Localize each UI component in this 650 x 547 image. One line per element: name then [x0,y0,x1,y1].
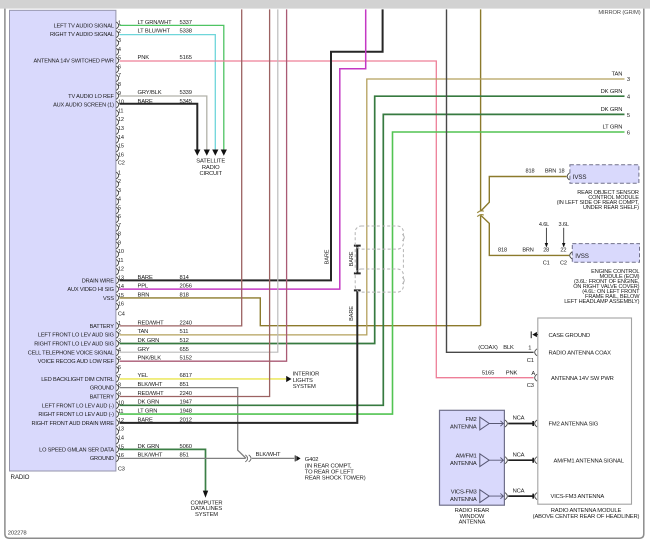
labels (COAX) BLK 1 C1 [478,345,534,364]
svg-text:RIGHT TV AUDIO SIGNAL: RIGHT TV AUDIO SIGNAL [50,32,114,38]
svg-text:ANTENNA 14V SWITCHED PWR: ANTENNA 14V SWITCHED PWR [33,59,113,65]
edge label TAN pin 3 [612,72,630,83]
svg-text:14: 14 [118,436,124,442]
wire BARE 2012 shield drain [120,290,361,423]
svg-text:6: 6 [627,130,630,136]
svg-text:RIGHT FRONT LO LEV AUD (-): RIGHT FRONT LO LEV AUD (-) [38,412,114,418]
terminal arc pnk at module [535,374,537,381]
svg-text:UNDER REAR SHELF): UNDER REAR SHELF) [583,205,639,211]
svg-text:VOICE RECOG AUD LOW REF: VOICE RECOG AUD LOW REF [38,359,115,365]
svg-text:TAN: TAN [612,72,623,78]
wire BARE 5345 (drain) [120,104,198,150]
svg-text:4.6L: 4.6L [539,222,549,228]
svg-text:IVSS: IVSS [573,174,587,181]
satellite radio circuit label [196,159,225,178]
svg-text:851: 851 [180,453,189,459]
svg-text:AUX VIDEO HI SIG: AUX VIDEO HI SIG [67,287,113,293]
caption G402 [305,457,366,481]
wire BRN 818 branch to ECM [481,216,569,256]
svg-text:NCA: NCA [513,416,525,422]
svg-text:6: 6 [118,214,121,220]
svg-text:RADIO ANTENNA COAX: RADIO ANTENNA COAX [549,351,612,357]
edge label DK GRN pin 4 [601,89,631,101]
svg-text:AM/FM1: AM/FM1 [456,454,477,460]
svg-text:5338: 5338 [180,29,192,35]
module IVSS rear object sensor box [567,165,639,183]
edge label DK GRN pin 5 [601,107,630,119]
svg-text:LEFT FRONT LO LEV AUD (-): LEFT FRONT LO LEV AUD (-) [42,403,114,409]
radio pin function labels [28,23,115,462]
labels 818 BRN 18 on branch 1 [526,169,565,175]
svg-text:BLK: BLK [503,345,514,351]
svg-text:C1: C1 [527,358,534,364]
svg-text:11: 11 [118,258,124,264]
wire NCA FM2 [508,416,537,427]
svg-text:C4: C4 [118,312,125,318]
svg-text:RIGHT FRONT LO LEV AUD SIG: RIGHT FRONT LO LEV AUD SIG [34,342,114,348]
svg-text:CIRCUIT: CIRCUIT [199,171,222,177]
svg-text:13: 13 [118,126,124,132]
svg-text:LEFT HEADLAMP ASSEMBLY): LEFT HEADLAMP ASSEMBLY) [564,299,639,305]
svg-text:AM/FM1 ANTENNA SIGNAL: AM/FM1 ANTENNA SIGNAL [554,459,625,465]
svg-text:LED BACKLIGHT DIM CNTRL: LED BACKLIGHT DIM CNTRL [41,377,114,383]
ground G402 arrow [295,455,300,461]
wire LT BLU/WHT 5338 [120,35,216,150]
arrow to interior lights system [286,376,291,382]
svg-text:5165: 5165 [482,370,494,376]
svg-text:5165: 5165 [180,55,192,61]
svg-text:7: 7 [118,223,121,229]
caption interior lights system [293,372,320,391]
svg-text:DRAIN WIRE: DRAIN WIRE [82,278,114,284]
svg-text:4: 4 [627,95,631,101]
wire LT GRN 1948 [120,132,625,414]
svg-text:3: 3 [118,38,121,44]
svg-text:TV AUDIO LO REF: TV AUDIO LO REF [68,94,114,100]
shield connector dashed box lower [355,269,404,292]
wire (COAX) BLK [447,9,534,352]
wire GRY 655 [120,9,278,352]
svg-text:BLK/WHT: BLK/WHT [138,453,163,459]
wire PNK 5165 [120,61,534,378]
wire RED/WHT 2240 pin1 [120,9,242,326]
svg-text:ANTENNA: ANTENNA [459,520,486,526]
splice split symbol on BRN 818 [477,211,484,217]
svg-text:13: 13 [118,427,124,433]
case ground symbol [531,331,538,338]
module radio rear window antenna box [440,410,505,505]
svg-text:5: 5 [627,113,630,119]
svg-text:LEFT FRONT LO LEV AUD SIG: LEFT FRONT LO LEV AUD SIG [38,333,114,339]
wire LT GRN/WHT 5337 [120,25,224,149]
wire TAN 511 [120,79,625,335]
module IVSS engine control box [570,244,640,263]
svg-text:SATELLITE: SATELLITE [196,159,225,165]
svg-text:C2: C2 [560,261,567,267]
satellite radio circuit arrows [194,150,227,156]
svg-text:1: 1 [118,171,121,177]
svg-text:LT GRN: LT GRN [602,125,622,131]
svg-text:C3: C3 [118,467,125,473]
svg-text:GROUND: GROUND [90,456,114,462]
wire BLK/WHT 851 pin8 [120,388,247,459]
svg-text:8: 8 [118,232,121,238]
shield bar BARE upper [354,246,361,274]
module radio antenna module box [538,318,632,504]
svg-text:ANTENNA: ANTENNA [450,424,477,430]
svg-text:CELL TELEPHONE VOICE SIGNAL: CELL TELEPHONE VOICE SIGNAL [28,350,114,356]
radio connector pin numbers C2/C4/C3 [118,20,125,472]
shield connector dashed box upper [355,226,404,249]
wire DK GRN 512 [120,96,625,343]
svg-text:REAR SHOCK TOWER): REAR SHOCK TOWER) [305,476,366,482]
antenna element FM2 [450,417,507,431]
svg-text:5339: 5339 [180,90,192,96]
svg-text:SYSTEM: SYSTEM [293,384,316,390]
svg-text:3.6L: 3.6L [559,222,569,228]
wire PPL 2056 (aux video to mirror) [120,9,366,289]
svg-text:DK GRN: DK GRN [601,107,623,113]
svg-text:FM2: FM2 [465,417,476,423]
svg-text:5: 5 [118,206,121,212]
svg-text:VICS-FM3: VICS-FM3 [451,490,477,496]
svg-text:(COAX): (COAX) [478,345,498,351]
svg-text:NCA: NCA [513,452,525,458]
labels 5165 PNK A C3 [482,370,535,389]
svg-text:AUX AUDIO SCREEN (1): AUX AUDIO SCREEN (1) [53,103,114,109]
svg-text:ANTENNA: ANTENNA [450,461,477,467]
svg-text:28: 28 [543,248,549,254]
svg-text:C3: C3 [527,383,534,389]
svg-text:CASE GROUND: CASE GROUND [549,333,591,339]
labels 818 BRN 28 22 on branch 2 [498,248,567,267]
svg-text:IVSS: IVSS [575,253,589,260]
svg-text:BATTERY: BATTERY [90,324,115,330]
svg-text:ANTENNA 14V SW PWR: ANTENNA 14V SW PWR [551,376,614,382]
radio connector pin terminals [116,22,118,462]
svg-text:16: 16 [118,302,124,308]
svg-text:6: 6 [118,64,121,70]
svg-text:202278: 202278 [8,530,28,536]
wire BARE 814 (drain to mirror) [120,9,383,280]
svg-text:9: 9 [118,240,121,246]
svg-text:BLK/WHT: BLK/WHT [256,452,281,458]
3.6L engine arrow [559,222,569,248]
svg-text:6: 6 [118,365,121,371]
wire PNK/BLK 5152 [120,9,287,361]
edge label LT GRN pin 6 [602,125,630,137]
wire YEL 6817 [120,378,287,380]
caption radio antenna module [533,508,640,520]
svg-text:7: 7 [118,73,121,79]
svg-text:VICS-FM3 ANTENNA: VICS-FM3 ANTENNA [551,494,605,500]
caption computer data lines system [191,500,223,517]
shield dashed connectors between boxes [355,249,403,269]
svg-text:SYSTEM: SYSTEM [195,512,218,518]
svg-text:511: 511 [180,329,189,335]
svg-text:3: 3 [118,188,121,194]
svg-text:DK GRN: DK GRN [601,89,623,95]
svg-text:LT BLU/WHT: LT BLU/WHT [138,29,171,35]
wire GRY/BLK 5339 [120,96,207,150]
caption engine control module [564,269,640,305]
svg-text:BARE: BARE [349,306,355,321]
svg-text:12: 12 [118,267,124,273]
svg-text:818: 818 [498,248,507,254]
svg-text:LO SPEED GMLAN SER DATA: LO SPEED GMLAN SER DATA [39,447,114,453]
svg-text:VSS: VSS [103,296,114,302]
svg-text:RIGHT FRONT AUD DRAIN WIRE: RIGHT FRONT AUD DRAIN WIRE [32,421,115,427]
svg-text:11: 11 [118,108,124,114]
computer data lines arrow [203,491,208,498]
svg-text:10: 10 [118,249,124,255]
4.6L engine arrow [539,222,549,248]
svg-text:8: 8 [118,82,121,88]
terminal arc coax at module [535,349,537,356]
svg-text:NCA: NCA [513,488,525,494]
wire NCA AM/FM1 [508,452,537,463]
svg-text:PNK: PNK [506,370,518,376]
antenna element VICS-FM3 [450,490,507,504]
svg-text:14: 14 [118,135,124,141]
svg-text:16: 16 [118,152,124,158]
svg-text:BATTERY: BATTERY [90,395,115,401]
svg-text:GROUND: GROUND [90,386,114,392]
svg-text:BARE: BARE [324,249,330,264]
svg-text:RADIO: RADIO [11,474,30,481]
svg-text:12: 12 [118,117,124,123]
svg-text:2: 2 [118,179,121,185]
wire DK GRN 1947 [120,114,625,405]
wire NCA VICS-FM3 [508,488,537,499]
svg-text:GRY/BLK: GRY/BLK [138,90,162,96]
svg-text:BRN: BRN [522,248,533,254]
svg-text:INTERIOR: INTERIOR [293,372,320,378]
svg-text:MIRROR (GR/M): MIRROR (GR/M) [598,10,640,16]
svg-text:BRN: BRN [545,169,556,175]
wire BRN 818 branch to rear object sensor [481,177,567,211]
svg-text:LEFT TV AUDIO SIGNAL: LEFT TV AUDIO SIGNAL [54,23,114,29]
svg-text:18: 18 [559,169,565,175]
svg-text:C2: C2 [118,161,125,167]
caption radio rear window antenna [455,508,490,526]
svg-text:BARE: BARE [349,251,355,266]
svg-text:PNK: PNK [138,55,150,61]
wire BRN 818 trunk [120,9,481,325]
top title bar (decorative) [0,0,650,9]
wire RED/WHT 2240 pin9 [120,9,270,396]
svg-text:818: 818 [526,169,535,175]
wire BLK/WHT 851 pin16 to G402 [120,457,295,459]
svg-text:4: 4 [118,47,121,53]
caption rear object sensor control module [557,190,640,211]
svg-text:RADIO: RADIO [202,165,220,171]
svg-text:LIGHTS: LIGHTS [293,378,313,384]
svg-text:3: 3 [627,77,630,83]
svg-text:FM2 ANTENNA SIG: FM2 ANTENNA SIG [549,422,599,428]
svg-text:15: 15 [118,144,124,150]
splice arcs on BLK/WHT [245,455,251,462]
radio connector panel [10,10,116,471]
svg-text:TAN: TAN [138,329,149,335]
antenna element AM/FM1 [450,454,507,468]
svg-text:G402: G402 [305,457,319,463]
svg-text:22: 22 [560,248,566,254]
svg-text:C1: C1 [543,261,550,267]
wire DK GRN 5060 [120,449,206,491]
svg-text:4: 4 [118,197,121,203]
svg-text:(ABOVE CENTER REAR OF HEADLINE: (ABOVE CENTER REAR OF HEADLINER) [533,514,640,520]
svg-text:1: 1 [528,346,531,352]
svg-text:ANTENNA: ANTENNA [450,497,477,503]
wire color/circuit labels at radio [138,20,192,459]
